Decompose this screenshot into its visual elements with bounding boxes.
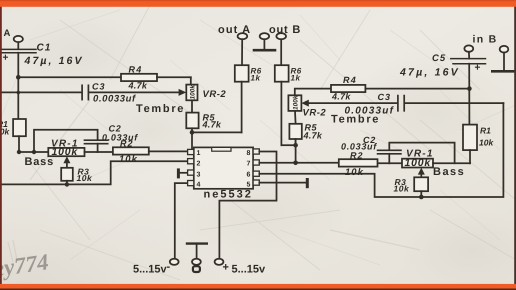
svg-text:Tembre: Tembre <box>331 114 380 126</box>
svg-text:10k: 10k <box>77 173 93 183</box>
svg-text:100k: 100k <box>52 146 79 158</box>
svg-text:C1: C1 <box>37 43 52 54</box>
svg-text:Bass: Bass <box>433 166 465 178</box>
svg-text:R4: R4 <box>129 65 143 75</box>
svg-text:ne5532: ne5532 <box>204 189 253 201</box>
svg-text:47µ, 16V: 47µ, 16V <box>24 55 84 67</box>
svg-text:4: 4 <box>197 182 201 189</box>
svg-text:5...15v: 5...15v <box>232 264 267 276</box>
svg-text:in B: in B <box>473 34 498 46</box>
svg-text:100k: 100k <box>190 85 197 100</box>
svg-text:A: A <box>4 28 11 39</box>
svg-text:0.0033uf: 0.0033uf <box>93 94 136 105</box>
svg-text:3: 3 <box>197 172 201 179</box>
svg-text:+: + <box>3 53 9 64</box>
svg-text:R2: R2 <box>350 151 364 161</box>
svg-text:R2: R2 <box>120 139 134 149</box>
svg-text:out B: out B <box>269 24 301 36</box>
svg-text:8: 8 <box>247 150 251 157</box>
svg-text:VR-2: VR-2 <box>203 89 227 100</box>
svg-text:C5: C5 <box>432 53 446 64</box>
svg-text:100k: 100k <box>293 95 300 110</box>
svg-text:C3: C3 <box>378 92 392 102</box>
svg-text:10k: 10k <box>119 154 138 165</box>
svg-text:R4: R4 <box>343 75 357 85</box>
svg-text:6: 6 <box>247 172 251 179</box>
svg-text:Tembre: Tembre <box>136 103 185 115</box>
svg-text:1: 1 <box>197 150 201 157</box>
svg-text:VR-2: VR-2 <box>303 108 327 119</box>
svg-text:C3: C3 <box>92 82 106 92</box>
svg-text:4.7k: 4.7k <box>331 92 351 102</box>
svg-text:5...15v: 5...15v <box>133 264 168 276</box>
svg-text:4.7k: 4.7k <box>202 120 222 130</box>
svg-text:R1: R1 <box>480 126 491 136</box>
svg-text:100k: 100k <box>405 157 432 169</box>
svg-text:1k: 1k <box>291 74 301 83</box>
svg-text:10k: 10k <box>394 184 410 194</box>
svg-text:1k: 1k <box>251 74 261 83</box>
svg-text:2: 2 <box>197 161 201 168</box>
svg-text:+: + <box>475 63 481 74</box>
svg-text:+: + <box>223 262 229 274</box>
svg-text:Bass: Bass <box>25 156 55 168</box>
svg-text:4.7k: 4.7k <box>303 131 323 141</box>
svg-text:7: 7 <box>247 161 251 168</box>
svg-text:10k: 10k <box>479 138 494 148</box>
svg-text:10k: 10k <box>345 167 364 178</box>
svg-text:47µ, 16V: 47µ, 16V <box>399 67 460 79</box>
svg-text:5: 5 <box>247 182 251 189</box>
svg-text:-: - <box>167 261 171 273</box>
svg-text:4.7k: 4.7k <box>128 81 148 91</box>
svg-text:out A: out A <box>218 24 251 36</box>
